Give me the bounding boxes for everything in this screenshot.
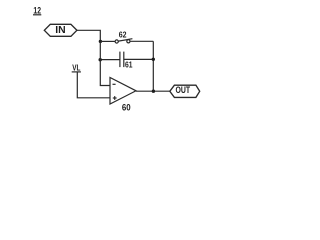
switch S 62 right contact: [127, 40, 130, 43]
node OUT (output flag): [170, 85, 200, 97]
svg-text:VL: VL: [72, 64, 80, 73]
op-amp non-inverting input plus sign: [113, 97, 117, 99]
switch 62 lever: [118, 39, 132, 41]
capacitor C 61 right plate: [123, 52, 125, 68]
svg-text:12: 12: [33, 5, 41, 15]
OUT label text: [176, 85, 191, 95]
wire capacitor row right segment: [124, 58, 153, 60]
svg-text:OUT: OUT: [176, 85, 191, 95]
label 61: [125, 59, 133, 69]
node junction output feedback: [152, 90, 155, 93]
switch S 62 left contact: [115, 40, 118, 43]
wire left rail down to inverting input: [100, 41, 110, 85]
underline of VL: [72, 71, 81, 73]
op-amp plus sign vertical stroke: [114, 96, 116, 100]
wire capacitor row left segment: [100, 59, 120, 61]
node junction right at capacitor row: [152, 58, 155, 61]
label 60: [122, 102, 131, 112]
supply label VL: [72, 64, 80, 73]
wire switch row right segment: [130, 40, 153, 42]
node IN (input flag): [44, 24, 77, 36]
svg-text:IN: IN: [55, 25, 65, 36]
op-amp inverting input minus sign: [113, 83, 116, 85]
label 62: [119, 29, 127, 39]
wire right vertical rail: [152, 41, 154, 91]
IN label text: [55, 25, 65, 36]
node junction at switch branch: [99, 40, 102, 43]
underline of 12: [33, 14, 41, 16]
op-amp U 60 triangle: [110, 78, 136, 105]
wire VL to non-inverting input: [77, 72, 110, 97]
wire from IN to left vertical rail: [77, 30, 100, 41]
svg-text:60: 60: [122, 102, 131, 112]
svg-text:61: 61: [125, 59, 133, 69]
figure reference numeral 12: [33, 5, 41, 15]
node junction left at capacitor row: [99, 58, 102, 61]
wire op-amp output to OUT: [136, 90, 170, 92]
wire switch row left segment: [100, 40, 115, 42]
capacitor C 61 left plate: [119, 52, 121, 68]
svg-text:62: 62: [119, 29, 127, 39]
